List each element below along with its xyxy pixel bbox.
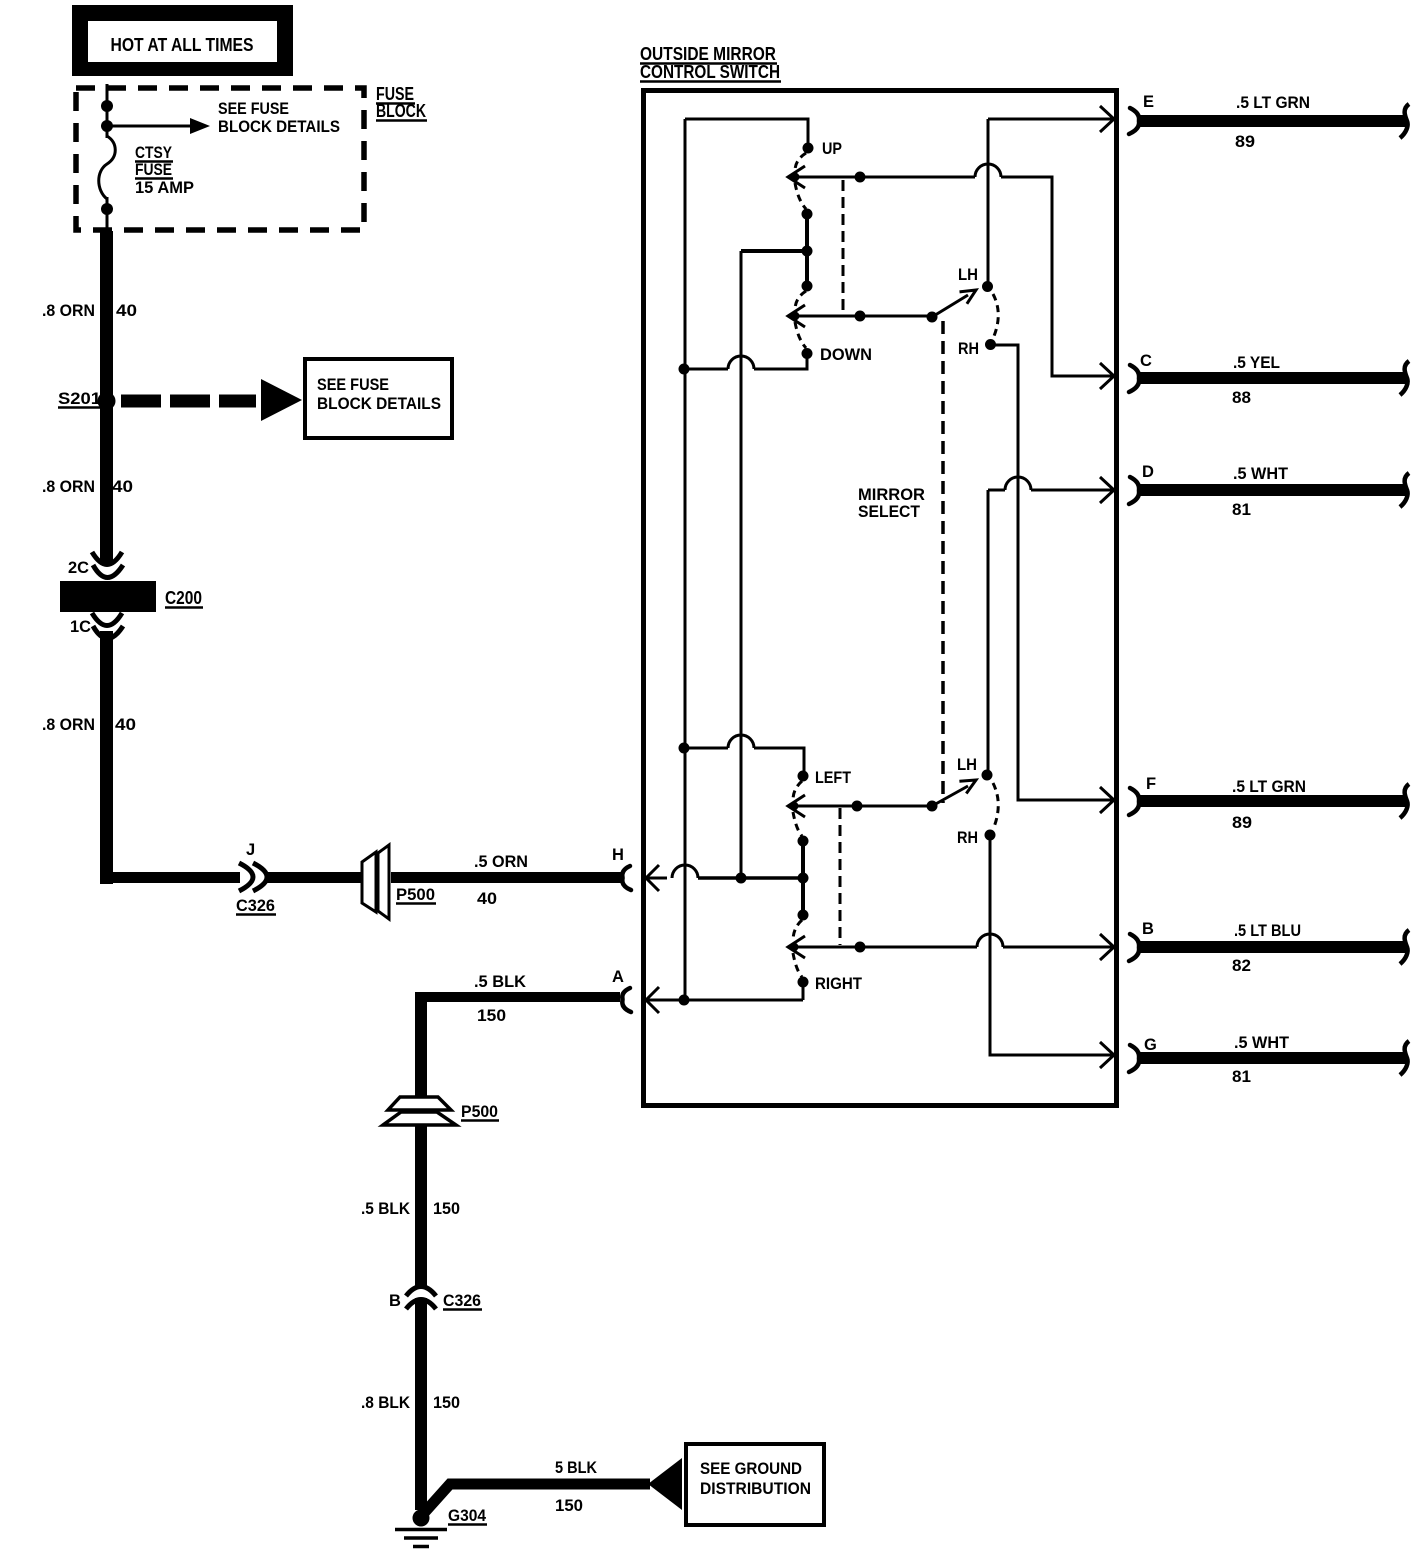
svg-text:SEE FUSE: SEE FUSE bbox=[317, 376, 389, 394]
svg-text:1C: 1C bbox=[70, 618, 91, 636]
svg-text:A: A bbox=[612, 968, 624, 986]
svg-text:SELECT: SELECT bbox=[858, 503, 920, 521]
svg-text:S201: S201 bbox=[58, 390, 101, 408]
svg-text:C326: C326 bbox=[443, 1292, 481, 1310]
svg-text:82: 82 bbox=[1232, 957, 1251, 975]
svg-text:CTSY: CTSY bbox=[135, 144, 172, 162]
svg-text:.5 YEL: .5 YEL bbox=[1233, 354, 1280, 372]
svg-text:.5 LT GRN: .5 LT GRN bbox=[1236, 94, 1310, 112]
svg-text:RH: RH bbox=[958, 340, 979, 358]
svg-text:H: H bbox=[612, 846, 624, 864]
svg-text:SEE FUSE: SEE FUSE bbox=[218, 100, 289, 118]
svg-text:.5 WHT: .5 WHT bbox=[1234, 1034, 1289, 1052]
svg-text:.8 ORN: .8 ORN bbox=[42, 478, 95, 496]
svg-text:CONTROL SWITCH: CONTROL SWITCH bbox=[640, 61, 780, 82]
svg-text:C200: C200 bbox=[165, 587, 202, 608]
svg-text:150: 150 bbox=[433, 1200, 460, 1218]
svg-text:89: 89 bbox=[1232, 814, 1252, 832]
svg-text:BLOCK DETAILS: BLOCK DETAILS bbox=[317, 395, 441, 413]
svg-text:.8 ORN: .8 ORN bbox=[42, 716, 95, 734]
svg-text:FUSE: FUSE bbox=[135, 161, 172, 179]
svg-text:150: 150 bbox=[555, 1497, 583, 1515]
svg-text:C: C bbox=[1140, 352, 1152, 370]
svg-text:C326: C326 bbox=[236, 897, 275, 915]
svg-text:89: 89 bbox=[1235, 133, 1255, 151]
svg-text:40: 40 bbox=[116, 302, 137, 320]
svg-text:P500: P500 bbox=[461, 1103, 498, 1121]
svg-text:.5 ORN: .5 ORN bbox=[474, 853, 528, 871]
svg-text:DOWN: DOWN bbox=[820, 346, 872, 364]
svg-text:UP: UP bbox=[822, 140, 842, 158]
svg-text:5 BLK: 5 BLK bbox=[555, 1459, 597, 1477]
svg-text:RH: RH bbox=[957, 829, 978, 847]
svg-text:G: G bbox=[1144, 1036, 1157, 1054]
svg-text:40: 40 bbox=[115, 716, 136, 734]
svg-text:.5 WHT: .5 WHT bbox=[1233, 465, 1288, 483]
svg-text:J: J bbox=[246, 841, 255, 859]
svg-text:LEFT: LEFT bbox=[815, 769, 851, 787]
svg-text:B: B bbox=[389, 1292, 401, 1310]
svg-text:B: B bbox=[1142, 920, 1154, 938]
svg-text:LH: LH bbox=[957, 756, 977, 774]
svg-text:.5 BLK: .5 BLK bbox=[361, 1200, 410, 1218]
svg-text:G304: G304 bbox=[448, 1507, 487, 1525]
svg-text:40: 40 bbox=[477, 890, 497, 908]
svg-text:BLOCK DETAILS: BLOCK DETAILS bbox=[218, 118, 340, 136]
svg-text:15 AMP: 15 AMP bbox=[135, 179, 194, 197]
svg-text:E: E bbox=[1143, 93, 1154, 111]
svg-text:.8 BLK: .8 BLK bbox=[361, 1394, 410, 1412]
svg-text:2C: 2C bbox=[68, 559, 89, 577]
svg-text:LH: LH bbox=[958, 266, 978, 284]
svg-text:150: 150 bbox=[433, 1394, 460, 1412]
svg-text:.5 LT BLU: .5 LT BLU bbox=[1234, 922, 1301, 940]
svg-text:BLOCK: BLOCK bbox=[376, 100, 426, 121]
svg-text:F: F bbox=[1146, 775, 1156, 793]
svg-text:.5 LT GRN: .5 LT GRN bbox=[1232, 778, 1306, 796]
svg-text:.8 ORN: .8 ORN bbox=[42, 302, 95, 320]
svg-text:81: 81 bbox=[1232, 501, 1251, 519]
svg-text:RIGHT: RIGHT bbox=[815, 975, 862, 993]
svg-text:HOT AT ALL TIMES: HOT AT ALL TIMES bbox=[111, 34, 254, 55]
svg-text:88: 88 bbox=[1232, 389, 1251, 407]
svg-text:SEE GROUND: SEE GROUND bbox=[700, 1460, 802, 1478]
svg-text:150: 150 bbox=[477, 1007, 506, 1025]
svg-text:P500: P500 bbox=[396, 886, 435, 904]
svg-text:81: 81 bbox=[1232, 1068, 1251, 1086]
svg-text:MIRROR: MIRROR bbox=[858, 486, 925, 504]
svg-text:D: D bbox=[1142, 463, 1154, 481]
svg-text:DISTRIBUTION: DISTRIBUTION bbox=[700, 1480, 811, 1498]
svg-text:.5 BLK: .5 BLK bbox=[474, 973, 526, 991]
svg-text:40: 40 bbox=[112, 478, 133, 496]
